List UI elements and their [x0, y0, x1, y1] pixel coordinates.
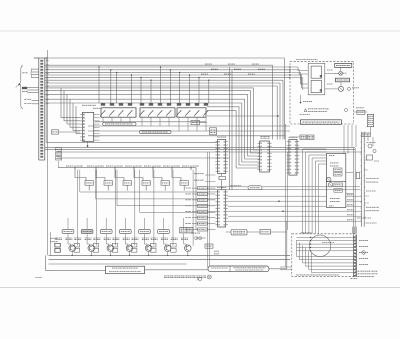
- wire: [141, 117, 143, 126]
- wire: [140, 78, 142, 104]
- label plate AUX BUS: [260, 230, 271, 234]
- value label: [113, 238, 120, 240]
- wire: [192, 170, 194, 218]
- wire: [198, 78, 200, 104]
- net label: [136, 165, 143, 167]
- speaker panel dashed enclosure J303: [290, 61, 354, 124]
- net name: [234, 68, 241, 70]
- wire: [312, 253, 354, 273]
- wire: [312, 158, 326, 234]
- net label: [347, 194, 354, 196]
- wire: [187, 117, 189, 131]
- wire: [96, 170, 105, 181]
- wire: [140, 170, 216, 213]
- net plate P4: [198, 204, 208, 207]
- junction: [282, 210, 284, 212]
- note JUMPERS ON OPTION 1 ONLY: [296, 274, 339, 276]
- wire: [300, 243, 354, 260]
- wire: [110, 70, 112, 103]
- wire: [354, 148, 356, 234]
- net label: [144, 165, 152, 167]
- option jumper dashed enclosure J305: [292, 234, 356, 276]
- net label: [359, 240, 369, 242]
- wire: [73, 103, 80, 130]
- note text: [366, 206, 379, 208]
- wire: [67, 218, 69, 229]
- divider: [229, 266, 231, 272]
- resistor R104: [112, 248, 118, 252]
- resistor R332: [334, 173, 343, 176]
- wire: [297, 240, 354, 257]
- switch label: [64, 230, 73, 232]
- junction: [160, 66, 161, 67]
- wire right bus: [361, 132, 363, 227]
- title J305: [301, 232, 312, 234]
- wire: [207, 115, 278, 117]
- wire: [86, 238, 88, 244]
- component A101: [210, 128, 217, 135]
- wire: [364, 195, 369, 197]
- wire: [115, 170, 117, 218]
- transformer T301 upper: [311, 66, 321, 78]
- junction: [110, 255, 111, 256]
- wire: [124, 218, 126, 229]
- relay K301: [367, 114, 373, 126]
- relay K108 contact: [167, 110, 172, 117]
- net name: [186, 217, 192, 219]
- label plate SPEAKER: [335, 63, 352, 67]
- wire: [125, 244, 128, 246]
- label plate REMOTE: [180, 227, 193, 233]
- wire: [228, 195, 326, 197]
- wire: [178, 117, 180, 131]
- net label: [182, 165, 190, 167]
- jack symbol: [362, 251, 366, 255]
- wire: [245, 99, 260, 159]
- transistor Q301: [327, 177, 331, 181]
- wire: [109, 252, 111, 256]
- label SIGNAL PATH: [142, 131, 168, 133]
- relay K102 contact: [110, 110, 115, 117]
- relay K101 contact: [101, 110, 106, 117]
- label: [199, 193, 207, 195]
- resistor R100: [55, 249, 61, 253]
- wire: [355, 125, 357, 147]
- wire: [354, 111, 368, 113]
- label line2 FRONT PANEL 1: [109, 271, 141, 273]
- wire: [298, 70, 300, 75]
- net label PHONE B: [24, 103, 31, 105]
- wire: [340, 67, 342, 71]
- label plate KEYBOARD: [106, 266, 145, 274]
- wire bus: [45, 85, 277, 87]
- net name: [186, 205, 192, 207]
- wire: [207, 107, 260, 165]
- wire: [297, 236, 354, 238]
- junction: [300, 102, 302, 104]
- wire: [242, 103, 260, 162]
- resistor R312: [104, 181, 112, 186]
- wire: [150, 117, 152, 126]
- wire bus: [45, 93, 248, 95]
- junction: [87, 145, 89, 147]
- wire: [300, 75, 308, 84]
- wire: [32, 99, 39, 101]
- net label: [347, 204, 354, 206]
- wire: [168, 117, 170, 126]
- relay K110 label: [186, 103, 190, 106]
- resistor R106: [151, 248, 157, 252]
- value: [335, 173, 342, 175]
- wire right bus: [363, 132, 365, 227]
- junction: [277, 115, 279, 117]
- junction: [91, 255, 92, 256]
- wire: [124, 234, 126, 239]
- switch label: [83, 230, 92, 232]
- wire: [106, 244, 109, 246]
- relay K104 label: [128, 103, 132, 106]
- wire: [229, 67, 231, 190]
- label line1: [234, 267, 266, 269]
- label: [199, 217, 207, 219]
- junction: [98, 66, 99, 67]
- label ATTEN BUS: [105, 123, 133, 125]
- junction: [310, 240, 311, 241]
- wire: [32, 71, 39, 73]
- relay K111 label: [195, 103, 199, 106]
- crystal Y301: [51, 130, 58, 134]
- wire: [172, 170, 181, 181]
- wire: [144, 244, 147, 246]
- wire: [347, 125, 349, 154]
- wire: [205, 181, 215, 183]
- wire: [346, 195, 362, 197]
- wire: [163, 218, 165, 229]
- wire: [360, 151, 362, 153]
- junction: [170, 69, 171, 70]
- diode CR103: [93, 243, 99, 247]
- wire: [352, 227, 354, 234]
- junction: [116, 72, 117, 73]
- label plate ATTEN BUS: [103, 122, 136, 125]
- relay K112 label: [204, 103, 208, 106]
- wire: [302, 77, 304, 90]
- wire: [45, 149, 355, 151]
- value label: [151, 238, 158, 240]
- jack sleeve: [348, 87, 351, 90]
- wire: [46, 255, 106, 270]
- ref J304: [356, 107, 364, 109]
- label: [199, 211, 207, 213]
- net plate P8: [198, 228, 208, 231]
- label REMOTE left: [181, 229, 186, 231]
- label U301 pins: [82, 104, 96, 106]
- wire: [107, 185, 109, 190]
- wire: [96, 218, 98, 246]
- key switch plate S104: [119, 229, 131, 233]
- wire: [67, 238, 69, 244]
- wire bus: [45, 71, 290, 73]
- wire: [290, 136, 300, 138]
- wire: [208, 186, 248, 188]
- pin blob: [320, 89, 322, 91]
- wire: [148, 252, 150, 256]
- wire: [248, 94, 260, 156]
- label plate SIGNAL PATH: [140, 130, 172, 133]
- wire: [192, 211, 198, 213]
- wire bus left vertical: [47, 50, 49, 255]
- wire: [315, 161, 326, 234]
- wire: [76, 106, 80, 134]
- wire: [346, 193, 354, 195]
- wire: [164, 244, 167, 246]
- wire: [143, 218, 145, 229]
- wire: [283, 58, 285, 140]
- junction: [140, 77, 141, 78]
- label: [191, 232, 200, 234]
- wire: [130, 75, 132, 103]
- label DATA: [250, 187, 260, 189]
- resistor R331: [334, 168, 343, 171]
- junction: [150, 80, 151, 81]
- label: [301, 137, 306, 139]
- net label: [347, 209, 354, 211]
- relay K106 label: [149, 103, 153, 106]
- diode CR106: [151, 243, 157, 247]
- net label: [66, 165, 74, 167]
- switch label: [322, 242, 334, 244]
- wire: [297, 243, 354, 245]
- net name: [224, 73, 231, 75]
- label line1 KEYBOARD: [112, 267, 138, 269]
- note line4: [350, 277, 357, 279]
- IC U303: [215, 140, 228, 174]
- wire: [228, 215, 362, 217]
- label U305: [289, 136, 298, 138]
- wire: [27, 86, 39, 88]
- wire row bus: [58, 167, 196, 169]
- wire: [207, 187, 215, 189]
- net label: [327, 83, 333, 85]
- wire: [68, 244, 71, 246]
- label: [50, 241, 58, 243]
- key switch plate S106: [158, 229, 170, 233]
- wire: [27, 92, 39, 94]
- value label: [171, 238, 178, 240]
- wire: [45, 57, 47, 142]
- net name: [252, 63, 259, 65]
- value label: [330, 201, 340, 203]
- label PHONES: [337, 79, 349, 81]
- net label: [87, 165, 95, 167]
- net name: [201, 73, 208, 75]
- relay K112 contact: [204, 110, 209, 117]
- value label: [142, 238, 149, 240]
- junction: [310, 237, 311, 238]
- wire: [179, 72, 181, 103]
- label plate DATA: [248, 186, 262, 190]
- value label: [93, 238, 100, 240]
- wire: [98, 67, 100, 103]
- wire: [280, 266, 292, 268]
- wire: [192, 199, 198, 201]
- value: [335, 184, 342, 186]
- diode CR100: [55, 243, 61, 247]
- wire: [207, 205, 215, 207]
- label EXT: [192, 122, 199, 124]
- net plate P2: [198, 193, 208, 196]
- pin 1: [289, 66, 291, 68]
- wire: [208, 189, 360, 191]
- wire: [207, 211, 215, 213]
- wire: [192, 205, 198, 207]
- wire bottom bus: [49, 254, 291, 256]
- junction: [198, 77, 199, 78]
- wire: [88, 130, 290, 132]
- value label: [143, 182, 150, 184]
- label: [199, 205, 207, 207]
- label U306: [217, 187, 226, 189]
- wire: [163, 234, 165, 239]
- label plate LOAD B: [308, 135, 315, 140]
- wire: [346, 205, 362, 207]
- label plate PHONES: [335, 78, 349, 82]
- wire: [207, 223, 215, 225]
- junction: [131, 74, 132, 75]
- wire: [183, 238, 185, 244]
- transistor Q102: [88, 245, 95, 252]
- label box MIC: [22, 87, 27, 89]
- label Y301: [52, 131, 58, 133]
- resistor R314: [142, 181, 150, 186]
- net name: [186, 199, 192, 201]
- wire bottom bus: [49, 259, 291, 261]
- label L-302: [329, 155, 335, 157]
- label plate PANEL BUS: [231, 230, 247, 235]
- net name: [186, 228, 192, 230]
- star symbol: [197, 277, 202, 280]
- wire: [67, 94, 80, 124]
- wire: [183, 185, 185, 190]
- label SENSE: [206, 245, 212, 247]
- wire: [303, 149, 327, 234]
- polarity mark: [343, 72, 347, 74]
- key switch plate S102: [81, 229, 93, 233]
- wire: [228, 210, 362, 212]
- label PANEL BUS: [233, 231, 245, 233]
- net name: [211, 68, 218, 70]
- wire: [172, 170, 174, 218]
- divider: [326, 181, 345, 183]
- label +15V: [366, 178, 379, 180]
- label PHONE: [352, 87, 359, 89]
- wire: [299, 72, 308, 74]
- wire: [116, 72, 118, 103]
- junction: [148, 255, 149, 256]
- wire: [95, 121, 206, 123]
- net label: [193, 165, 200, 167]
- net label: [347, 219, 354, 221]
- label plate EXT: [191, 121, 200, 125]
- wire: [87, 141, 89, 147]
- wire: [153, 218, 155, 246]
- label REMOTE right: [187, 229, 192, 231]
- label: [56, 153, 61, 155]
- speaker LS301: [339, 71, 343, 75]
- value label: [161, 238, 168, 240]
- wire: [346, 200, 362, 202]
- wire: [370, 127, 372, 133]
- resistor R316: [180, 181, 188, 186]
- regulator VR302: [56, 152, 62, 155]
- label: [199, 223, 207, 225]
- wire: [272, 65, 274, 139]
- net name: [186, 187, 192, 189]
- relay K111 contact: [195, 110, 200, 117]
- wire: [228, 200, 326, 202]
- net label: [77, 165, 84, 167]
- relay K105 contact: [140, 110, 145, 117]
- wire: [58, 151, 60, 152]
- net label: [155, 165, 162, 167]
- resistor R102: [74, 248, 80, 252]
- wire: [298, 69, 308, 72]
- wire: [253, 88, 259, 150]
- wire: [207, 152, 209, 268]
- wire: [221, 174, 223, 177]
- wire: [297, 240, 354, 242]
- wire: [280, 269, 292, 271]
- wire: [58, 156, 60, 157]
- label: [199, 229, 207, 231]
- wire: [297, 246, 354, 248]
- wire: [77, 170, 79, 218]
- wire: [45, 147, 355, 149]
- note text: [357, 217, 371, 219]
- net plate P3: [198, 198, 208, 201]
- wire: [46, 141, 218, 143]
- relay K101 label: [101, 103, 105, 106]
- wire: [291, 69, 299, 71]
- page number 7-16: [36, 277, 43, 279]
- wire: [291, 71, 300, 73]
- wire: [117, 170, 215, 206]
- wire bus: [45, 79, 283, 81]
- wire bus: [45, 82, 280, 84]
- wire: [145, 269, 209, 271]
- wire: [102, 117, 104, 122]
- wire: [367, 133, 369, 141]
- wire tick: [190, 166, 192, 170]
- ref label: [367, 142, 376, 144]
- wire: [58, 157, 230, 159]
- pin blob: [320, 75, 322, 77]
- label +15V: [303, 100, 312, 102]
- wire: [192, 193, 198, 195]
- wire: [208, 80, 210, 103]
- wire: [286, 221, 288, 269]
- wire: [134, 170, 136, 218]
- wire: [364, 169, 368, 171]
- wire: [88, 135, 286, 137]
- wire: [145, 185, 147, 190]
- label line2: [236, 269, 264, 271]
- wire: [196, 117, 198, 131]
- net name +5V: [194, 173, 204, 175]
- junction: [310, 250, 311, 251]
- wire: [184, 244, 187, 246]
- wire: [207, 111, 260, 168]
